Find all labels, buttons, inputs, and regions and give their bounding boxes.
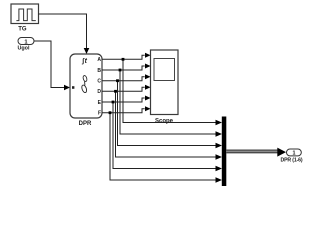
block DPR <box>70 54 102 118</box>
pulse generator TG <box>11 4 39 24</box>
block Scope <box>151 50 179 115</box>
svg-text:DPR: DPR <box>79 121 92 127</box>
DPR port letters A-F <box>97 57 101 116</box>
svg-text:∫t: ∫t <box>81 58 87 65</box>
svg-text:F: F <box>98 111 101 117</box>
outport DPR (1-6) <box>287 149 302 157</box>
wire C to Scope 3 <box>102 74 151 81</box>
wire F to Scope 6 <box>102 106 151 113</box>
DPR left port marker <box>72 86 74 89</box>
branch E to Mux 5 <box>112 101 222 172</box>
svg-text:Ugol: Ugol <box>18 46 30 52</box>
svg-text:TG: TG <box>18 26 27 32</box>
mux bar <box>222 117 227 187</box>
DPR chain icon <box>81 75 88 93</box>
branch F to Mux 6 <box>109 111 222 182</box>
svg-text:B: B <box>97 68 101 74</box>
inport Ugol <box>18 38 34 46</box>
branch B to Mux 2 <box>119 69 222 137</box>
branch D to Mux 4 <box>114 90 222 160</box>
wire TG to DPR top <box>39 14 90 54</box>
branch C to Mux 3 <box>116 79 222 148</box>
wire D to Scope 4 <box>102 85 151 92</box>
svg-text:A: A <box>97 57 101 63</box>
branch A to Mux 1 <box>122 58 222 125</box>
wide output line <box>226 150 277 154</box>
svg-text:1: 1 <box>293 151 296 157</box>
wire Ugol to DPR left <box>34 41 70 90</box>
svg-text:D: D <box>97 89 101 95</box>
output arrow <box>277 148 286 157</box>
wire B to Scope 2 <box>102 64 151 71</box>
svg-text:C: C <box>97 79 101 85</box>
svg-text:DPR (1-6): DPR (1-6) <box>281 158 303 164</box>
wire E to Scope 5 <box>102 96 151 103</box>
wire A to Scope 1 <box>102 53 151 60</box>
svg-text:Scope: Scope <box>155 118 174 124</box>
